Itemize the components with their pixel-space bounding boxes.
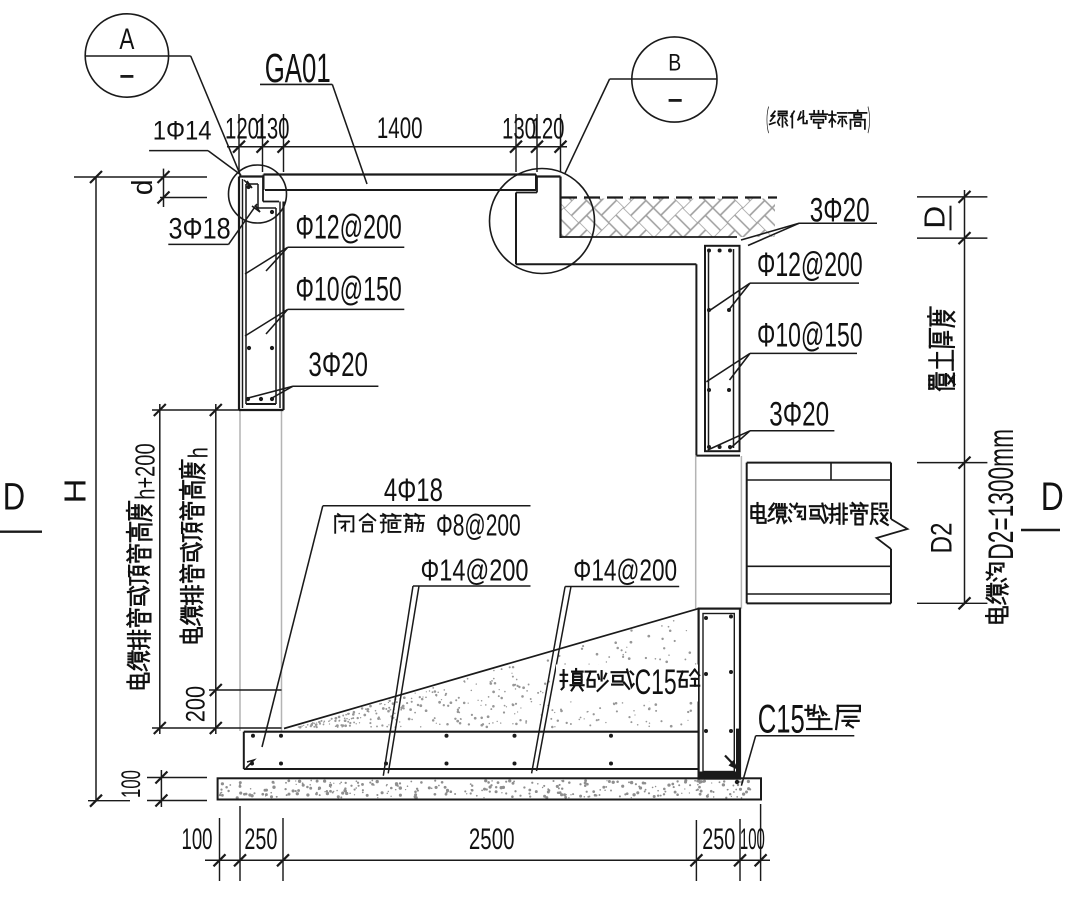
svg-text:3Φ18: 3Φ18 bbox=[169, 213, 231, 246]
svg-text:B: B bbox=[668, 49, 681, 76]
svg-text:1Φ14: 1Φ14 bbox=[153, 116, 212, 146]
box top band line bbox=[747, 479, 891, 481]
svg-text:Φ8@200: Φ8@200 bbox=[436, 508, 521, 543]
small arrow at wall foot bbox=[725, 756, 736, 768]
svg-text:C15: C15 bbox=[635, 662, 677, 702]
left wall inner face bbox=[279, 202, 281, 409]
rotated text soil cover thickness bbox=[928, 307, 954, 390]
right wall lower section outline bbox=[699, 609, 740, 779]
extension line bbox=[262, 114, 264, 172]
left wall top and rebate bbox=[239, 175, 263, 177]
label cable trench or duct section bbox=[756, 503, 758, 506]
extension line bbox=[760, 804, 762, 881]
svg-text:3Φ20: 3Φ20 bbox=[769, 396, 829, 434]
svg-text:2500: 2500 bbox=[469, 823, 515, 856]
rotated 200 bbox=[180, 686, 210, 722]
section bubble A bbox=[85, 14, 168, 97]
detail circle A around left corner bbox=[229, 165, 287, 223]
extension line bbox=[739, 819, 741, 881]
svg-text:100: 100 bbox=[116, 770, 146, 798]
right wall lower cage bbox=[703, 614, 734, 772]
box top divider bbox=[830, 463, 832, 480]
chamber right inner face bbox=[695, 264, 697, 455]
extension line bbox=[282, 818, 284, 881]
rotated text cable trench D2=1300mm bbox=[982, 429, 1021, 623]
hatch top dashed line bbox=[561, 196, 777, 198]
floor slab left hook bbox=[246, 760, 254, 768]
sand fill triangle stipple bbox=[298, 620, 697, 729]
svg-text:D: D bbox=[1041, 475, 1064, 519]
svg-text:120: 120 bbox=[225, 113, 259, 146]
C15 bedding slab bbox=[218, 778, 761, 799]
wire: right wall hidden face lines bbox=[695, 456, 697, 609]
H dimension line bbox=[95, 177, 97, 801]
svg-text:100: 100 bbox=[182, 823, 213, 856]
section bubble B bbox=[632, 37, 717, 122]
svg-text:Φ14@200: Φ14@200 bbox=[421, 552, 529, 587]
svg-text:100: 100 bbox=[740, 823, 765, 856]
extension line bbox=[695, 820, 697, 881]
right upstand wall bbox=[516, 192, 537, 194]
label closed stirrup phi8@200 bbox=[338, 514, 340, 515]
svg-text:h+200: h+200 bbox=[129, 443, 160, 499]
svg-text:A: A bbox=[119, 23, 134, 56]
sand fill hypotenuse bbox=[284, 609, 699, 729]
d dimension bbox=[74, 176, 207, 178]
top dimension line bbox=[227, 146, 567, 148]
label sand or C15 concrete bbox=[556, 665, 698, 702]
extension line bbox=[560, 114, 562, 172]
floor slab rebar dots bbox=[251, 734, 255, 738]
bedding slab stipple bbox=[219, 779, 751, 799]
left wall outer face bbox=[238, 177, 240, 411]
extension line bbox=[283, 114, 285, 172]
svg-text:（: （ bbox=[761, 106, 770, 138]
svg-text:130: 130 bbox=[256, 113, 290, 146]
svg-text:d: d bbox=[127, 179, 159, 195]
extension line bbox=[238, 114, 240, 172]
right wall lower thick edges bbox=[736, 729, 740, 772]
left 100 dimension bbox=[160, 770, 162, 807]
left wall hook marks bbox=[244, 180, 252, 188]
box lower lines bbox=[747, 565, 891, 567]
bottom dimension line bbox=[205, 859, 770, 861]
svg-text:h: h bbox=[182, 447, 213, 458]
svg-text:D: D bbox=[3, 476, 25, 518]
D2 dimension bbox=[964, 463, 966, 604]
svg-text:4Φ18: 4Φ18 bbox=[384, 472, 443, 508]
extension line bbox=[219, 818, 221, 881]
wire: left wall hidden face lines bbox=[239, 410, 241, 731]
svg-text:250: 250 bbox=[244, 823, 277, 856]
svg-text:D2: D2 bbox=[926, 523, 959, 554]
right wall upper cage lines bbox=[708, 249, 710, 448]
svg-text:Φ14@200: Φ14@200 bbox=[573, 552, 677, 587]
left wall rebar dots bbox=[246, 185, 250, 189]
right wall upper rebar dots bbox=[707, 249, 711, 253]
svg-text:D: D bbox=[919, 206, 951, 229]
svg-text:1400: 1400 bbox=[377, 112, 423, 145]
green belt paving hatch bbox=[561, 199, 775, 238]
extension lines left dims bbox=[152, 409, 239, 411]
left wall bottom bbox=[239, 409, 284, 411]
top cover slab GA01 bbox=[264, 173, 537, 175]
svg-text:3Φ20: 3Φ20 bbox=[308, 346, 368, 384]
svg-text:Φ12@200: Φ12@200 bbox=[296, 209, 402, 247]
detail circle B around right corner bbox=[490, 169, 595, 274]
right wall lower rebar dots bbox=[704, 616, 708, 620]
rotated text cable duct height h+200 bbox=[127, 443, 160, 688]
svg-text:250: 250 bbox=[702, 823, 735, 856]
extension line bbox=[515, 114, 517, 172]
svg-text:200: 200 bbox=[180, 686, 210, 722]
svg-text:H: H bbox=[58, 479, 93, 504]
chamber soffit line bbox=[516, 263, 696, 265]
svg-text:120: 120 bbox=[531, 113, 565, 146]
svg-text:）: ） bbox=[867, 106, 876, 138]
dim line h bbox=[215, 404, 217, 734]
svg-text:Φ12@200: Φ12@200 bbox=[757, 246, 863, 284]
hatch bottom line bbox=[561, 236, 737, 238]
extension line bbox=[536, 114, 538, 172]
dim line h+200 bbox=[159, 404, 161, 734]
right wall upper section outline bbox=[705, 246, 740, 451]
svg-text:C15: C15 bbox=[758, 698, 805, 742]
svg-text:Φ10@150: Φ10@150 bbox=[757, 316, 863, 354]
box zigzag break bbox=[877, 519, 908, 549]
svg-text:D2=1300mm: D2=1300mm bbox=[982, 429, 1021, 560]
extension line bbox=[239, 806, 241, 881]
cable duct crossing box bbox=[747, 462, 891, 464]
rotated text cable duct height h bbox=[180, 447, 213, 642]
svg-text:Φ10@150: Φ10@150 bbox=[296, 271, 402, 309]
right D dimension (cover depth) bbox=[964, 190, 966, 463]
trench floor slab bbox=[244, 731, 699, 733]
left wall rebar cage bbox=[245, 184, 247, 404]
